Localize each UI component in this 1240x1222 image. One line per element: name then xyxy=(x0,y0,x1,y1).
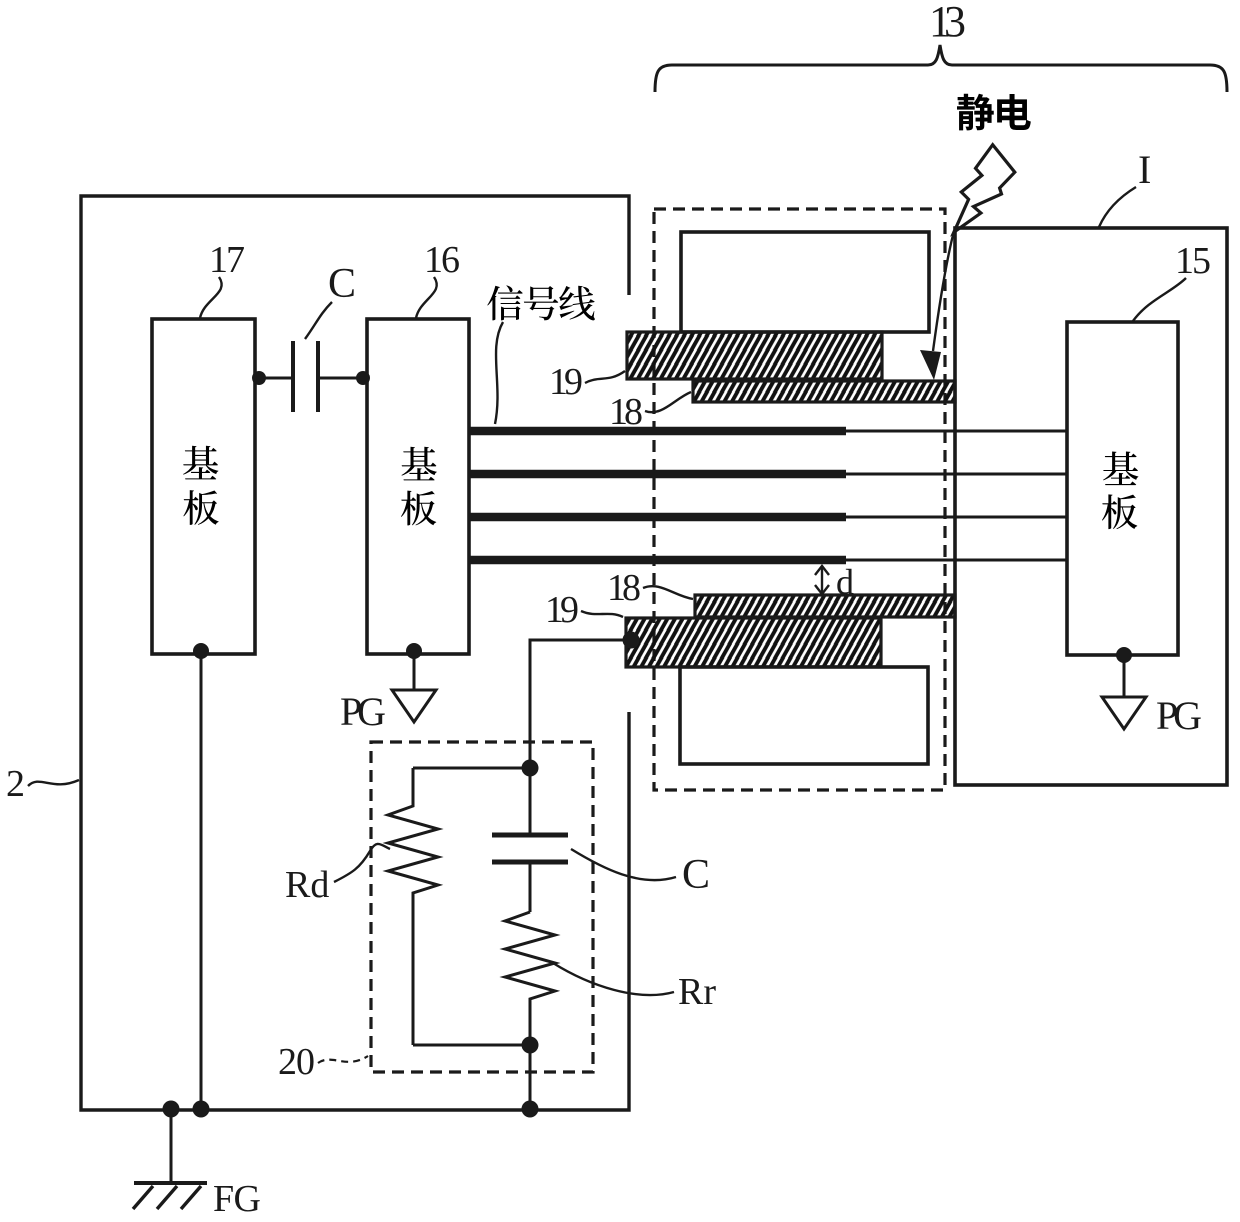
signal line 3 thick segment xyxy=(468,513,846,522)
text 基板 in box 15 xyxy=(1103,452,1138,486)
resistor Rd xyxy=(388,768,438,1045)
svg-text:16: 16 xyxy=(424,239,460,281)
svg-text:15: 15 xyxy=(1175,240,1211,282)
svg-text:13: 13 xyxy=(929,0,966,46)
resistor Rr xyxy=(505,912,555,1045)
node dot top of RC network xyxy=(522,760,539,777)
capacitor C plates (RC) xyxy=(492,835,568,862)
top contact 18 (thin hatched) xyxy=(693,381,955,402)
top wire of RC network xyxy=(413,767,530,770)
wire from contact 19 to RC network xyxy=(530,640,631,768)
bottom connector housing xyxy=(680,667,928,764)
capacitor C of RC network: top wire xyxy=(529,768,532,833)
wire to PG of board 15 xyxy=(1123,655,1126,697)
node dot under box 17 xyxy=(193,643,209,659)
wire RC network to enclosure bottom xyxy=(529,1045,532,1110)
signal line 2 thick segment xyxy=(468,470,846,479)
node dot bottom of RC network xyxy=(522,1037,539,1054)
enclosure box 2 (outer device housing, open on right for connector) xyxy=(81,196,629,1110)
PG ground symbol (left) xyxy=(392,690,436,722)
label 信号线 (signal line) xyxy=(487,285,522,320)
text 基板 in box 16 xyxy=(402,447,437,481)
svg-text:20: 20 xyxy=(278,1041,315,1083)
svg-text:C: C xyxy=(682,852,710,898)
wire from box 17 to enclosure bottom xyxy=(200,651,203,1110)
signal line 4 thick segment xyxy=(468,556,846,565)
leader for bottom 19 xyxy=(581,611,623,617)
signal line 1 thin segment xyxy=(846,430,1067,433)
dashed leader for label 20 xyxy=(318,1056,368,1063)
svg-text:18: 18 xyxy=(607,567,641,609)
dashed outline of connector 13 xyxy=(654,209,945,790)
leader for label 15 xyxy=(1133,278,1186,321)
top contact 19 (thick hatched) xyxy=(627,332,882,379)
leader for label Rd xyxy=(334,844,390,882)
signal line 1 thick segment xyxy=(468,427,846,436)
leader for label 2 xyxy=(28,780,79,786)
svg-text:PG: PG xyxy=(1156,693,1202,738)
ESD arrowhead xyxy=(920,350,941,380)
svg-text:19: 19 xyxy=(545,589,579,631)
top connector housing xyxy=(681,232,929,332)
svg-text:PG: PG xyxy=(340,689,386,734)
wire to PG of board 16 xyxy=(413,651,416,690)
dashed outline of protection circuit 20 xyxy=(371,742,593,1072)
leader for top 18 xyxy=(645,392,691,412)
leader for label C xyxy=(305,302,332,339)
svg-text:18: 18 xyxy=(609,391,643,433)
text 静电 (static electricity) xyxy=(957,94,994,131)
leader for label C (RC) xyxy=(571,849,676,880)
node dot under box 15 xyxy=(1116,647,1132,663)
svg-text:Rr: Rr xyxy=(678,971,716,1013)
bottom contact 18 (thin hatched) xyxy=(695,595,955,617)
signal line 4 thin segment xyxy=(846,559,1067,562)
signal line 3 thin segment xyxy=(846,516,1067,519)
wire from box 17 to capacitor C xyxy=(255,377,293,380)
node dot on enclosure bottom (RC) xyxy=(522,1101,539,1118)
leader for label 16 xyxy=(416,277,437,318)
leader for bottom 18 xyxy=(643,586,693,599)
lightning bolt xyxy=(954,145,1015,233)
leader for top 19 xyxy=(585,371,625,383)
wire to FG ground xyxy=(170,1109,173,1183)
svg-text:Rd: Rd xyxy=(285,864,329,906)
brace for label 13 xyxy=(655,45,1227,92)
svg-text:FG: FG xyxy=(213,1178,261,1220)
device housing I xyxy=(955,228,1227,785)
leader for label 17 xyxy=(200,277,222,318)
node dot box17 wire at bottom xyxy=(193,1101,210,1118)
capacitor C plates xyxy=(293,341,318,412)
bottom contact 19 (thick hatched) xyxy=(626,618,881,667)
svg-text:C: C xyxy=(328,261,356,307)
leader for label I xyxy=(1099,187,1136,227)
svg-text:17: 17 xyxy=(209,239,245,281)
svg-text:19: 19 xyxy=(549,361,583,403)
ESD arrow line xyxy=(933,231,954,351)
d gap dimension arrow xyxy=(821,567,823,593)
FG ground symbol xyxy=(134,1181,207,1185)
node dot on box 16 xyxy=(356,371,370,385)
leader for label Rr xyxy=(553,963,674,995)
svg-text:2: 2 xyxy=(6,763,25,805)
leader for 信号线 xyxy=(495,322,503,424)
svg-text:I: I xyxy=(1138,147,1151,192)
substrate board 17 xyxy=(152,319,255,654)
wire capacitor to Rr xyxy=(529,862,532,912)
bottom wire of RC network xyxy=(413,1044,530,1047)
text 基板 in box 17 xyxy=(183,446,218,480)
substrate board 15 xyxy=(1067,322,1178,655)
substrate board 16 xyxy=(367,319,469,654)
signal line 2 thin segment xyxy=(846,473,1067,476)
wire from capacitor C to box 16 xyxy=(318,377,367,380)
PG ground symbol (right) xyxy=(1102,697,1146,729)
node dot under box 16 xyxy=(406,643,422,659)
node dot on bottom contact 19 xyxy=(623,632,640,649)
node dot FG junction xyxy=(163,1101,180,1118)
node dot on box 17 xyxy=(252,371,266,385)
